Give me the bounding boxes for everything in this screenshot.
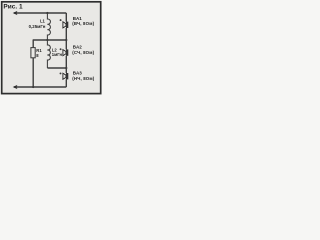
svg-text:BA2: BA2 bbox=[73, 45, 82, 50]
inductor L2 bbox=[47, 40, 50, 68]
loudspeaker BA2 bbox=[60, 40, 69, 68]
inductor L1 bbox=[47, 13, 50, 40]
node junction R1 bottom bbox=[32, 86, 34, 88]
loudspeaker BA1 bbox=[60, 13, 69, 40]
wire R1 top lead bbox=[32, 40, 34, 48]
svg-text:Рис. 1: Рис. 1 bbox=[3, 3, 23, 10]
input arrow top bbox=[13, 11, 18, 15]
border frame bbox=[2, 2, 101, 94]
node junction L1/L2 mid bbox=[46, 39, 48, 41]
svg-text:0,25мГн: 0,25мГн bbox=[29, 24, 46, 29]
loudspeaker BA3 bbox=[60, 68, 69, 87]
svg-text:(СЧ, 8Ом): (СЧ, 8Ом) bbox=[72, 50, 94, 55]
svg-text:BA3: BA3 bbox=[73, 71, 82, 76]
node junction L1 top bbox=[46, 12, 48, 14]
resistor R1 bbox=[31, 48, 35, 58]
wire L2 bottom to node bbox=[47, 67, 66, 69]
node junction BA2/BA3 bbox=[65, 67, 67, 69]
svg-text:L1: L1 bbox=[40, 19, 46, 24]
svg-text:(ВЧ, 8Ом): (ВЧ, 8Ом) bbox=[72, 21, 94, 26]
wire bottom rail bbox=[14, 86, 66, 88]
svg-text:(НЧ, 8Ом): (НЧ, 8Ом) bbox=[72, 76, 94, 81]
node junction BA1/BA2 bbox=[65, 39, 67, 41]
wire R1 bottom lead bbox=[32, 58, 34, 87]
wire top rail bbox=[14, 12, 66, 14]
input arrow bottom bbox=[13, 85, 18, 89]
svg-text:1мГн: 1мГн bbox=[52, 52, 63, 57]
wire mid rail bbox=[33, 39, 66, 41]
